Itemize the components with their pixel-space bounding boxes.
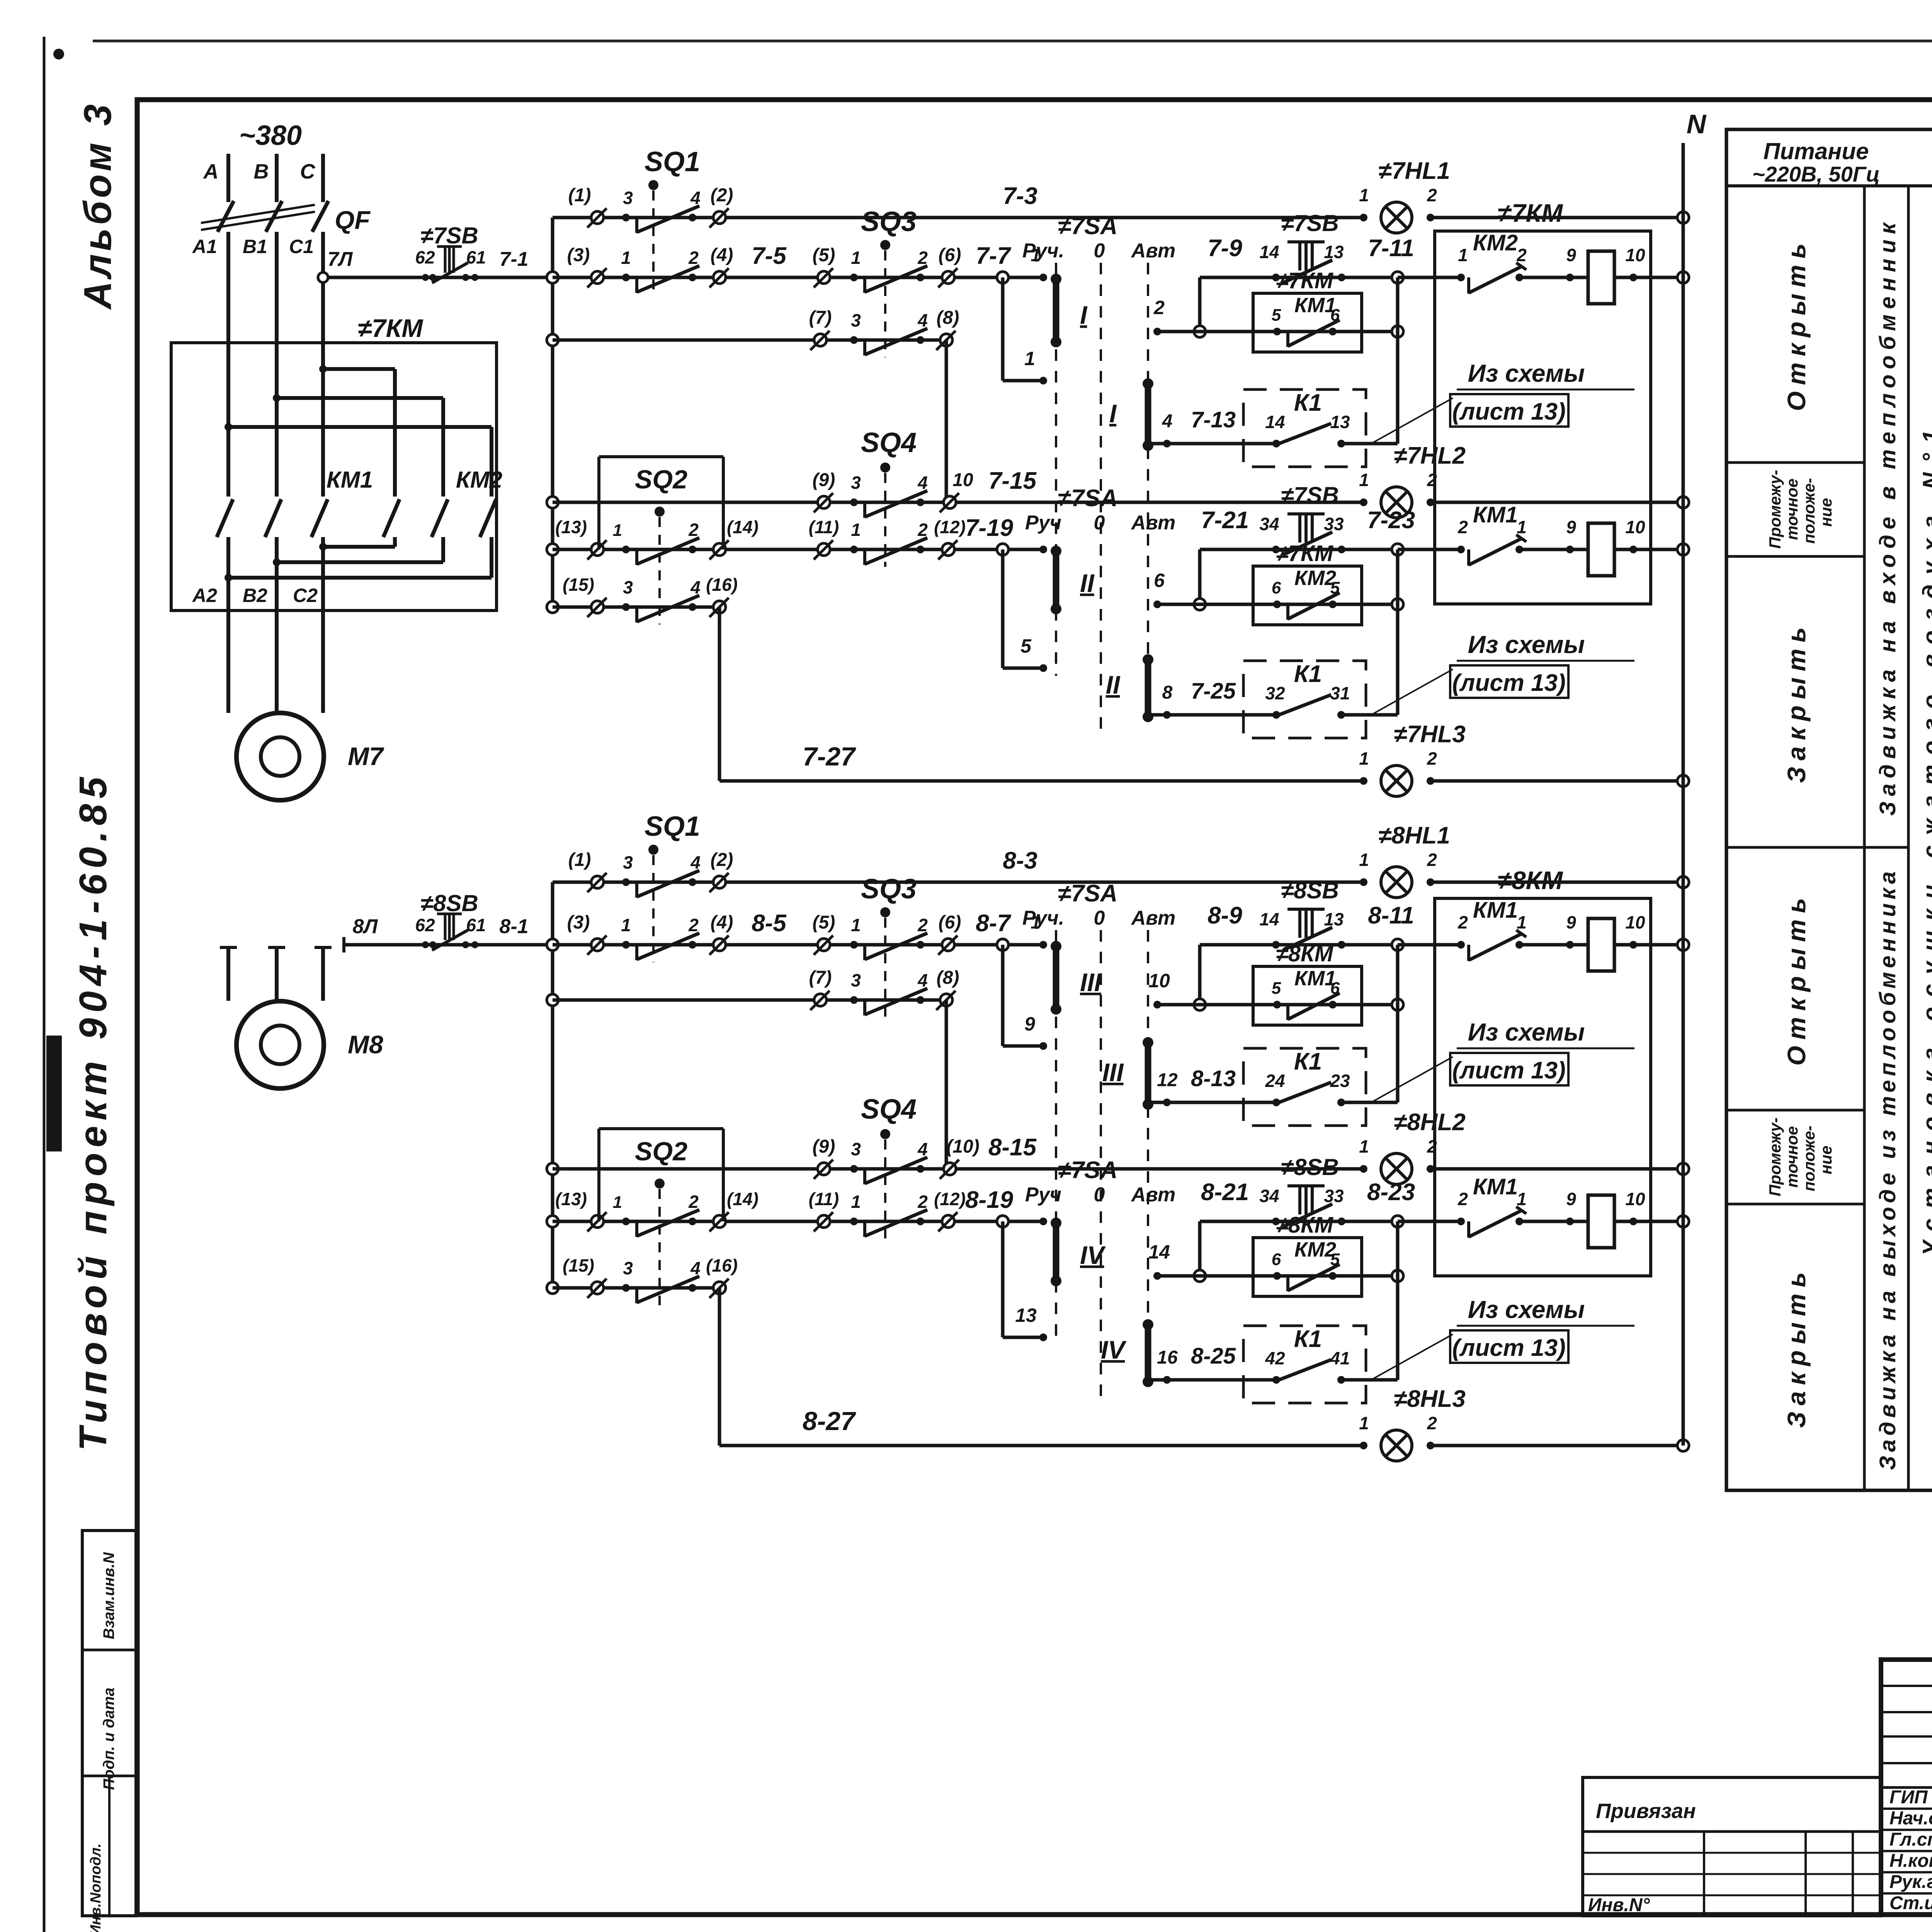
svg-text:8-11: 8-11: [1368, 902, 1414, 929]
wire (8) down to rung 4: [945, 340, 948, 502]
svg-text:7-1: 7-1: [499, 248, 528, 270]
svg-text:1: 1: [851, 915, 861, 935]
svg-text:(12): (12): [934, 1189, 966, 1209]
svg-text:≠8HL1: ≠8HL1: [1378, 822, 1450, 849]
node before SA: [997, 544, 1009, 555]
svg-text:Взам.инв.N: Взам.инв.N: [100, 1552, 117, 1639]
svg-text:Закрыть: Закрыть: [1782, 621, 1811, 783]
wire into contactor box rung5: [1398, 548, 1461, 551]
contactor coil KM1: [1588, 251, 1614, 304]
node on rail y=1571: [547, 601, 558, 613]
wire into contactor box: [1398, 943, 1461, 947]
svg-text:КМ2: КМ2: [1473, 230, 1518, 255]
svg-text:8-21: 8-21: [1201, 1179, 1249, 1206]
svg-text:КМ1: КМ1: [327, 467, 373, 493]
svg-text:(16): (16): [706, 1255, 738, 1276]
svg-text:≠7SA: ≠7SA: [1058, 880, 1118, 907]
svg-text:14: 14: [1259, 242, 1279, 262]
contact SQ2 1-2: [622, 546, 630, 553]
svg-text:ние: ние: [1817, 498, 1835, 527]
svg-text:≠8SB: ≠8SB: [420, 890, 478, 916]
svg-text:14: 14: [1148, 1241, 1170, 1263]
connector (10): [944, 496, 956, 509]
svg-text:3: 3: [623, 188, 633, 208]
svg-text:0: 0: [1094, 240, 1105, 262]
contact SQ3 1-2: [850, 274, 858, 281]
svg-text:(13): (13): [555, 1189, 587, 1209]
relay К1 contact rung 8-13: [1148, 1101, 1276, 1104]
svg-text:(1): (1): [568, 185, 591, 206]
svg-text:КМ1: КМ1: [1473, 502, 1518, 527]
svg-text:4: 4: [690, 577, 701, 597]
svg-text:Из схемы: Из схемы: [1468, 631, 1585, 658]
svg-text:≠7SB: ≠7SB: [1281, 210, 1339, 236]
svg-text:32: 32: [1265, 683, 1285, 703]
svg-text:(14): (14): [727, 1189, 759, 1209]
svg-text:Авт: Авт: [1131, 240, 1176, 262]
svg-text:2: 2: [688, 520, 699, 540]
svg-text:13: 13: [1324, 242, 1344, 262]
svg-text:Руч.: Руч.: [1022, 240, 1064, 262]
svg-text:В: В: [254, 160, 269, 183]
svg-text:(3): (3): [567, 245, 590, 265]
node on rail y=3333: [547, 1282, 558, 1294]
NC aux contact in KM box rung5: [1457, 546, 1465, 553]
svg-text:Авт: Авт: [1131, 512, 1176, 534]
N rail: [1682, 143, 1685, 1446]
node 7-11: [1392, 272, 1403, 283]
connector (11): [818, 543, 830, 556]
svg-text:≠7HL1: ≠7HL1: [1378, 158, 1450, 184]
wire right collector vertical: [1396, 945, 1400, 1102]
svg-text:9: 9: [1566, 517, 1576, 537]
relay К1 dashed box II: [1243, 661, 1366, 738]
sheet top edge scan line: [93, 40, 1932, 43]
svg-text:Открыть: Открыть: [1782, 237, 1811, 411]
svg-text:1: 1: [621, 248, 631, 268]
node aux bypass: [1194, 326, 1206, 337]
terminal at SA: [1039, 1218, 1047, 1225]
svg-text:Задвижка на выходе из теплообм: Задвижка на выходе из теплообменника: [1875, 867, 1900, 1470]
svg-text:QF: QF: [335, 206, 371, 234]
svg-text:SQ3: SQ3: [861, 874, 917, 905]
connector (8): [940, 334, 952, 346]
connector (4): [713, 271, 726, 284]
svg-text:Из схемы: Из схемы: [1468, 1018, 1585, 1046]
svg-text:Гл.спец.: Гл.спец.: [1889, 1830, 1932, 1850]
svg-text:2: 2: [1458, 912, 1468, 932]
node before SA: [997, 272, 1009, 283]
contactor enclosure box ≠7КМ: [1435, 231, 1651, 604]
svg-text:1: 1: [621, 915, 631, 935]
svg-text:Промежу-: Промежу-: [1766, 470, 1784, 549]
svg-text:SQ3: SQ3: [861, 206, 917, 237]
svg-text:SQ4: SQ4: [861, 1094, 917, 1125]
svg-text:(12): (12): [934, 517, 966, 537]
svg-text:IV: IV: [1080, 1241, 1106, 1269]
svg-text:ние: ние: [1817, 1146, 1835, 1174]
wire rung (15)-(16): [553, 605, 719, 609]
svg-text:8-25: 8-25: [1191, 1344, 1236, 1369]
svg-text:1: 1: [1517, 1189, 1527, 1209]
svg-text:1: 1: [1458, 245, 1468, 265]
svg-text:Питание: Питание: [1764, 138, 1869, 164]
svg-text:5: 5: [1020, 635, 1032, 657]
svg-text:(8): (8): [937, 968, 959, 988]
svg-text:(лист 13): (лист 13): [1452, 398, 1566, 425]
svg-text:3: 3: [623, 852, 633, 872]
SA section II hand bar: [1053, 551, 1060, 609]
power strip table Питание: [1726, 129, 1932, 1490]
contact SQ2 3-4: [622, 1284, 630, 1292]
wire rung 8-19: [553, 1220, 1043, 1223]
svg-text:(2): (2): [711, 850, 733, 870]
svg-text:N: N: [1687, 109, 1707, 139]
wire rung (7)-(8): [553, 338, 946, 342]
svg-text:В1: В1: [243, 236, 267, 257]
relay К1 contact rung 7-25: [1148, 713, 1276, 717]
SA section II auto bar: [1145, 660, 1151, 717]
wire right collector vertical II: [1396, 549, 1400, 715]
svg-text:2: 2: [688, 915, 699, 935]
svg-text:2: 2: [1427, 185, 1437, 205]
svg-text:3: 3: [851, 473, 861, 493]
contact SQ4 1-2: [850, 546, 858, 553]
wire below QF: [275, 232, 279, 343]
svg-text:4: 4: [917, 1139, 928, 1159]
svg-text:10: 10: [1625, 912, 1645, 932]
wire 7-27: [718, 607, 721, 781]
svg-text:I: I: [1109, 399, 1117, 428]
svg-text:≠7HL2: ≠7HL2: [1394, 442, 1466, 469]
wire rung 7-3: [553, 216, 1364, 219]
svg-text:4: 4: [917, 310, 928, 330]
svg-text:Задвижка на входе в теплообмен: Задвижка на входе в теплообменник: [1875, 218, 1900, 816]
wire 7-21 to 7-23: [1200, 548, 1398, 551]
wire into contactor box: [1398, 276, 1461, 279]
relay К1 dashed box II: [1243, 1326, 1366, 1403]
svg-text:Промежу-: Промежу-: [1766, 1117, 1784, 1196]
svg-text:34: 34: [1259, 514, 1279, 534]
svg-text:8-1: 8-1: [499, 915, 528, 938]
svg-text:2: 2: [1458, 517, 1468, 537]
node right collector II: [1392, 599, 1403, 610]
svg-text:1: 1: [851, 520, 861, 540]
svg-text:6: 6: [1154, 570, 1165, 591]
node on N rail: [1677, 1440, 1689, 1451]
selector switch ≠7SA dashed position lines: [1055, 263, 1057, 549]
contactor coil KM2: [1588, 1195, 1614, 1248]
connector (9): [818, 496, 830, 509]
svg-text:42: 42: [1265, 1348, 1285, 1368]
svg-text:7-3: 7-3: [1003, 183, 1037, 209]
wire right collector vertical: [1396, 277, 1400, 444]
svg-text:8Л: 8Л: [353, 915, 378, 938]
svg-text:SQ2: SQ2: [635, 465, 687, 494]
svg-text:4: 4: [690, 852, 701, 872]
svg-text:7-19: 7-19: [965, 515, 1014, 541]
svg-text:Н.контр.: Н.контр.: [1889, 1850, 1932, 1871]
contact SQ3 3-4: [850, 996, 858, 1004]
svg-text:7-23: 7-23: [1367, 507, 1415, 534]
node 7-11: [1392, 939, 1403, 951]
svg-text:12: 12: [1157, 1070, 1178, 1090]
svg-text:Руч: Руч: [1025, 512, 1061, 534]
relay К1 dashed box: [1243, 389, 1366, 467]
svg-text:7-13: 7-13: [1191, 407, 1236, 432]
contact SQ2 1-2: [622, 1218, 630, 1225]
svg-text:≠8SB: ≠8SB: [1281, 878, 1339, 903]
aux contact box ≠8КМ КМ1: [1253, 966, 1362, 1025]
svg-text:8-7: 8-7: [976, 910, 1011, 937]
title block: [1881, 1660, 1932, 1915]
wire into contactor box rung5: [1398, 1220, 1461, 1223]
svg-text:62: 62: [415, 247, 435, 267]
svg-text:II: II: [1106, 670, 1121, 699]
connector (15): [591, 601, 604, 613]
feed wire 7Л to ≠7SB: [323, 276, 553, 279]
svg-text:≠8HL2: ≠8HL2: [1394, 1109, 1466, 1136]
relay К1 dashed box: [1243, 1048, 1366, 1126]
svg-text:КМ1: КМ1: [1473, 1174, 1518, 1199]
connector (12): [942, 1215, 954, 1228]
svg-text:Авт: Авт: [1131, 907, 1176, 929]
relay К1 contact rung 8-25: [1148, 1378, 1276, 1382]
svg-text:33: 33: [1324, 1186, 1344, 1206]
svg-text:(6): (6): [939, 912, 961, 933]
svg-text:(10): (10): [946, 1136, 979, 1157]
connector (7): [814, 334, 827, 346]
svg-text:≠7SB: ≠7SB: [1281, 482, 1339, 508]
svg-text:10: 10: [1625, 1189, 1645, 1209]
svg-text:6: 6: [1272, 578, 1281, 597]
svg-text:Закрыть: Закрыть: [1782, 1266, 1811, 1428]
svg-text:4: 4: [690, 1258, 701, 1278]
svg-text:4: 4: [917, 970, 928, 990]
svg-text:~220В, 50Гц: ~220В, 50Гц: [1752, 162, 1880, 186]
SA section I auto bar: [1145, 384, 1151, 446]
svg-text:КМ2: КМ2: [456, 467, 502, 493]
svg-text:9: 9: [1024, 1013, 1035, 1035]
svg-text:2: 2: [1516, 245, 1527, 265]
svg-text:9: 9: [1566, 1189, 1576, 1209]
contactor enclosure box ≠8КМ: [1435, 898, 1651, 1276]
node on N rail: [1677, 939, 1689, 951]
connector (5): [818, 271, 830, 284]
relay К1 contact rung 7-13: [1148, 442, 1276, 446]
svg-text:1: 1: [1359, 748, 1369, 769]
svg-text:≠7SA: ≠7SA: [1058, 213, 1118, 240]
svg-text:61: 61: [466, 247, 486, 267]
aux NO contact: [1273, 1001, 1281, 1009]
wire below QF: [226, 232, 230, 343]
contact SQ1 1-2: [622, 941, 630, 949]
motor M8 leads: [226, 947, 230, 1001]
aux contact rung (bypass) section I: [1153, 328, 1161, 335]
svg-text:14: 14: [1265, 412, 1285, 432]
svg-text:Из схемы: Из схемы: [1468, 359, 1585, 387]
svg-text:Руч: Руч: [1025, 1184, 1061, 1206]
svg-text:8-13: 8-13: [1191, 1066, 1236, 1091]
contact SQ4 3-4: [850, 498, 858, 506]
svg-text:(15): (15): [563, 575, 594, 595]
svg-text:Нач.отд.: Нач.отд.: [1889, 1808, 1932, 1829]
circuit breaker QF: [218, 201, 234, 232]
svg-text:1: 1: [851, 248, 861, 268]
node on N rail: [1677, 497, 1689, 508]
svg-text:23: 23: [1330, 1071, 1350, 1091]
svg-text:10: 10: [1625, 245, 1645, 265]
wire jog 1: [1001, 277, 1005, 381]
svg-text:3: 3: [623, 577, 633, 597]
left edge smudge: [46, 1036, 62, 1151]
svg-text:(11): (11): [809, 1189, 839, 1209]
svg-text:16: 16: [1157, 1347, 1178, 1368]
svg-text:6: 6: [1330, 306, 1340, 325]
svg-text:≠7КМ: ≠7КМ: [1276, 268, 1334, 293]
feed wire 8Л to ≠8SB: [344, 943, 553, 947]
left margin stamp boxes: [82, 1531, 136, 1916]
terminal 1 at SA: [1039, 274, 1047, 281]
svg-text:Авт: Авт: [1131, 1184, 1176, 1206]
svg-text:К1: К1: [1294, 1048, 1322, 1075]
svg-text:Установка осушки сжатого возду: Установка осушки сжатого воздуха N°1: [1918, 420, 1932, 1256]
SA section IV auto bar: [1145, 1325, 1151, 1382]
svg-text:2: 2: [1427, 850, 1437, 870]
aux NO contact: [1273, 328, 1281, 335]
wire rung 7-19: [553, 548, 1043, 551]
svg-text:(лист 13): (лист 13): [1452, 1335, 1566, 1361]
svg-text:(5): (5): [813, 912, 835, 933]
svg-text:10: 10: [952, 470, 973, 490]
svg-text:I: I: [1080, 301, 1088, 329]
svg-text:3: 3: [851, 970, 861, 990]
svg-text:1: 1: [1359, 1413, 1369, 1433]
connector (7): [814, 994, 827, 1006]
connector (3): [591, 939, 604, 951]
svg-text:(13): (13): [555, 517, 587, 537]
node on rail y=2588: [547, 994, 558, 1006]
terminal at SA: [1039, 546, 1047, 553]
svg-text:Из схемы: Из схемы: [1468, 1296, 1585, 1323]
motor M8: [236, 1001, 324, 1088]
svg-text:А2: А2: [192, 585, 217, 606]
svg-text:1: 1: [1359, 470, 1369, 490]
svg-text:0: 0: [1094, 907, 1105, 929]
svg-text:(9): (9): [813, 1136, 835, 1157]
svg-text:2: 2: [1427, 748, 1437, 769]
svg-text:7-7: 7-7: [976, 243, 1011, 269]
connector (6): [942, 939, 954, 951]
aux contact rung (bypass) section III: [1153, 1001, 1161, 1009]
connector (12): [942, 543, 954, 556]
svg-text:0: 0: [1094, 1184, 1105, 1206]
corner blob top left: [53, 49, 64, 60]
svg-text:1: 1: [1359, 185, 1369, 205]
svg-text:≠7SB: ≠7SB: [420, 223, 478, 248]
svg-text:≠8КМ: ≠8КМ: [1276, 941, 1334, 966]
svg-text:13: 13: [1324, 909, 1344, 929]
svg-text:IV: IV: [1101, 1335, 1127, 1364]
svg-text:Привязан: Привязан: [1596, 1799, 1696, 1823]
svg-text:(7): (7): [809, 308, 832, 328]
wire jog 13: [1001, 1221, 1005, 1337]
aux NO contact II: [1273, 1272, 1281, 1280]
svg-text:7-27: 7-27: [803, 742, 856, 771]
svg-text:≠7HL3: ≠7HL3: [1394, 721, 1466, 748]
terminal 1 at SA: [1039, 941, 1047, 949]
svg-text:≠7КМ: ≠7КМ: [358, 314, 424, 342]
wire 8-27: [718, 1288, 721, 1446]
connector (16): [713, 1282, 726, 1294]
svg-text:SQ4: SQ4: [861, 427, 917, 458]
connector (1): [591, 876, 604, 888]
svg-text:III: III: [1102, 1058, 1124, 1087]
connector (5): [818, 939, 830, 951]
svg-text:8-15: 8-15: [988, 1134, 1037, 1161]
svg-text:14: 14: [1259, 909, 1279, 929]
svg-text:6: 6: [1330, 979, 1340, 998]
svg-text:10: 10: [1625, 517, 1645, 537]
connector (9): [818, 1163, 830, 1175]
svg-text:4: 4: [1162, 411, 1173, 432]
connector (13): [591, 543, 604, 556]
svg-text:(16): (16): [706, 575, 738, 595]
NC aux contact in KM box: [1457, 941, 1465, 949]
wire jog 9: [1001, 945, 1005, 1046]
svg-text:2: 2: [917, 915, 928, 935]
wire 7-9 to 7-11: [1200, 276, 1398, 279]
node on rail y=718: [547, 272, 558, 283]
svg-text:положе-: положе-: [1800, 1126, 1818, 1191]
SQ2 bypass loop: [597, 1129, 600, 1221]
svg-text:точное: точное: [1783, 1126, 1801, 1187]
svg-text:5: 5: [1272, 979, 1281, 998]
node on N rail: [1677, 544, 1689, 555]
svg-text:М7: М7: [348, 742, 384, 770]
node on N rail: [1677, 1216, 1689, 1227]
NC aux contact in KM box rung5: [1457, 1218, 1465, 1225]
connector (14): [713, 1215, 726, 1228]
wire below QF: [321, 232, 325, 343]
node right collector: [1392, 326, 1403, 337]
contact SQ1 3-4: [622, 214, 630, 221]
svg-text:Инв.Nоподл.: Инв.Nоподл.: [88, 1844, 104, 1932]
node on N rail: [1677, 212, 1689, 223]
svg-text:SQ2: SQ2: [635, 1137, 687, 1166]
node on rail y=2445: [547, 939, 558, 951]
svg-text:7-5: 7-5: [752, 243, 787, 269]
svg-text:К1: К1: [1294, 1326, 1322, 1352]
svg-text:(1): (1): [568, 850, 591, 870]
svg-text:7-11: 7-11: [1368, 235, 1414, 262]
svg-text:(14): (14): [727, 517, 759, 537]
svg-text:10: 10: [1148, 970, 1170, 992]
svg-text:(лист 13): (лист 13): [1452, 1057, 1566, 1084]
node right collector II: [1392, 1270, 1403, 1282]
svg-text:2: 2: [1427, 1413, 1437, 1433]
node on rail y=1422: [547, 544, 558, 555]
svg-text:А: А: [203, 160, 219, 183]
wire rung (7)-(8): [553, 998, 946, 1002]
svg-text:Открыть: Открыть: [1782, 892, 1811, 1066]
svg-text:≠8SB: ≠8SB: [1281, 1154, 1339, 1180]
svg-text:31: 31: [1330, 683, 1350, 703]
KM2 main contacts: [323, 367, 395, 371]
svg-text:3: 3: [623, 1258, 633, 1278]
svg-text:К1: К1: [1294, 661, 1322, 687]
connector (16): [713, 601, 726, 613]
